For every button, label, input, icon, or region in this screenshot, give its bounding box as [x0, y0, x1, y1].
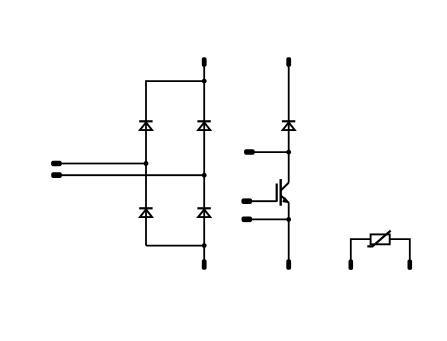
wire top bridge horizontal	[146, 80, 204, 82]
transistor Q1 IGBT	[277, 179, 289, 206]
node junction input1/left rail	[144, 161, 149, 166]
wire AC input 2 lead	[60, 174, 204, 176]
wire emitter tap lead	[250, 218, 289, 220]
wire varistor left lead	[351, 239, 371, 260]
terminal varistor left	[349, 260, 354, 270]
terminal collector tap lead	[244, 149, 255, 155]
terminal AC input 1	[51, 161, 62, 167]
wire varistor right lead	[390, 239, 410, 260]
terminal varistor right	[408, 260, 413, 270]
node junction top right rail	[202, 79, 207, 84]
terminal AC input 2	[51, 172, 62, 178]
node junction input2/right rail	[202, 173, 207, 178]
diode D3 lower-left	[139, 208, 152, 217]
wire collector rail	[288, 66, 290, 183]
wire right bridge rail	[203, 66, 205, 260]
node junction emitter tap	[286, 217, 291, 222]
diode D1 upper-left	[139, 121, 152, 130]
terminal gate	[241, 198, 252, 204]
terminal collector top	[286, 57, 291, 67]
varistor RV1	[367, 231, 390, 247]
terminal DC+ top of bridge	[202, 57, 207, 67]
terminal emitter bottom	[286, 259, 291, 269]
wire AC input 1 lead	[60, 163, 146, 165]
diode D4 lower-right	[197, 208, 210, 217]
diode D2 upper-right	[197, 121, 210, 130]
node junction bottom right rail	[202, 243, 207, 248]
node junction collector tap	[286, 150, 291, 155]
wire left bridge rail	[145, 80, 147, 245]
terminal DC- bottom of bridge	[202, 259, 207, 269]
diode D5 freewheel	[282, 121, 295, 130]
wire bottom bridge horizontal	[146, 245, 204, 247]
terminal emitter tap	[242, 217, 253, 223]
wire gate lead	[250, 200, 277, 202]
wire collector tap lead	[253, 151, 289, 153]
wire emitter rail	[288, 203, 290, 261]
